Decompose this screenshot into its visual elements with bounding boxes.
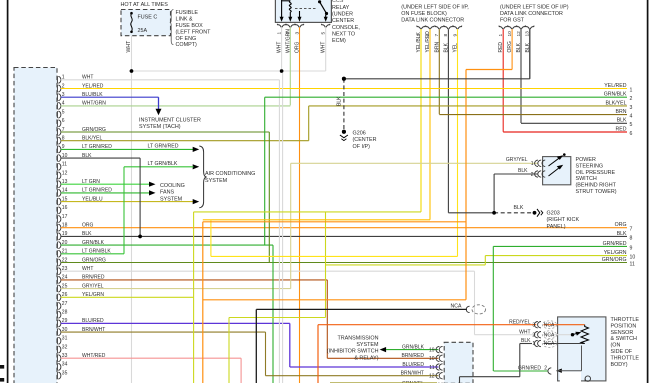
svg-text:SWITCH: SWITCH — [576, 176, 597, 182]
svg-text:ON FUSE BLOCK): ON FUSE BLOCK) — [401, 11, 447, 17]
svg-text:(INHIBITOR SWITCH: (INHIBITOR SWITCH — [327, 349, 379, 355]
svg-text:OF I/P): OF I/P) — [353, 144, 371, 150]
svg-text:2: 2 — [544, 366, 547, 372]
svg-text:HOT AT ALL TIMES: HOT AT ALL TIMES — [121, 2, 169, 8]
svg-text:25A: 25A — [138, 28, 148, 34]
svg-text:6: 6 — [630, 131, 633, 137]
svg-text:BLU/RED: BLU/RED — [402, 362, 424, 368]
svg-text:LT GRN/BLK: LT GRN/BLK — [148, 161, 178, 167]
svg-text:(UNDER: (UNDER — [332, 12, 353, 18]
svg-text:35: 35 — [62, 370, 68, 376]
svg-text:5: 5 — [62, 109, 65, 115]
svg-text:1: 1 — [531, 161, 534, 167]
svg-text:THROTTLE: THROTTLE — [611, 317, 640, 323]
svg-text:GRN/ORG: GRN/ORG — [602, 257, 627, 263]
svg-text:12: 12 — [429, 374, 435, 380]
svg-text:BLK: BLK — [518, 168, 528, 174]
svg-text:16: 16 — [62, 205, 68, 211]
svg-text:THROTTLE: THROTTLE — [611, 355, 640, 361]
svg-text:19: 19 — [429, 347, 435, 353]
svg-text:OF ENG: OF ENG — [176, 36, 197, 42]
svg-text:RELAY: RELAY — [332, 5, 350, 11]
svg-text:28: 28 — [62, 310, 68, 316]
svg-text:GRN/RED: GRN/RED — [518, 365, 541, 371]
svg-text:2: 2 — [630, 96, 633, 102]
svg-text:(ON: (ON — [611, 343, 621, 349]
svg-text:WHT: WHT — [519, 329, 530, 335]
svg-text:5: 5 — [630, 122, 633, 128]
svg-text:34: 34 — [62, 362, 68, 368]
svg-text:AIR CONDITIONING: AIR CONDITIONING — [205, 171, 255, 177]
svg-text:CONSOLE,: CONSOLE, — [332, 25, 360, 31]
svg-text:SENSOR: SENSOR — [611, 330, 634, 336]
svg-text:WHT: WHT — [126, 40, 132, 53]
svg-text:FOR GST: FOR GST — [500, 18, 525, 24]
svg-text:YEL/GRN: YEL/GRN — [604, 250, 627, 256]
svg-text:FUSE C: FUSE C — [138, 15, 158, 21]
svg-text:SIDE OF: SIDE OF — [611, 349, 633, 355]
svg-text:BRN/WHT: BRN/WHT — [401, 371, 424, 377]
svg-text:COMPT): COMPT) — [176, 42, 197, 48]
svg-text:POWER: POWER — [576, 157, 596, 163]
svg-text:DATA LINK CONNECTOR: DATA LINK CONNECTOR — [401, 18, 464, 24]
svg-text:11: 11 — [630, 261, 635, 267]
svg-text:BODY): BODY) — [611, 362, 628, 368]
svg-text:CCS: CCS — [332, 0, 344, 4]
svg-text:RED: RED — [616, 126, 627, 132]
svg-text:11: 11 — [429, 365, 434, 371]
svg-text:YEL/RED: YEL/RED — [604, 83, 626, 89]
svg-text:GRY/YEL: GRY/YEL — [506, 157, 528, 163]
svg-text:FUSE BOX: FUSE BOX — [176, 23, 204, 29]
svg-text:STEERING: STEERING — [576, 163, 604, 169]
svg-text:(UNDER LEFT SIDE OF I/P,: (UNDER LEFT SIDE OF I/P, — [401, 5, 469, 11]
svg-text:NCA: NCA — [544, 332, 555, 338]
svg-text:9: 9 — [630, 245, 633, 251]
svg-text:COOLING: COOLING — [160, 183, 185, 189]
svg-text:TRANSMISSION: TRANSMISSION — [337, 335, 378, 341]
svg-text:(LEFT FRONT: (LEFT FRONT — [176, 29, 212, 35]
svg-text:GRN/BLK: GRN/BLK — [604, 92, 627, 98]
svg-text:BRN: BRN — [616, 109, 627, 115]
svg-text:& SWITCH: & SWITCH — [611, 336, 637, 342]
svg-text:10: 10 — [630, 255, 636, 261]
svg-text:LINK &: LINK & — [176, 17, 193, 23]
svg-text:31: 31 — [62, 336, 68, 342]
svg-text:BLK: BLK — [617, 118, 627, 124]
svg-text:PANEL): PANEL) — [547, 224, 566, 230]
svg-text:DATA LINK CONNECTOR: DATA LINK CONNECTOR — [500, 11, 563, 17]
svg-text:POSITION: POSITION — [611, 323, 637, 329]
svg-text:BLK/YEL: BLK/YEL — [605, 100, 626, 106]
svg-text:STRUT TOWER): STRUT TOWER) — [576, 189, 617, 195]
svg-text:6: 6 — [62, 118, 65, 124]
svg-text:8: 8 — [630, 235, 633, 241]
svg-text:BLK: BLK — [514, 205, 524, 211]
svg-text:NEXT TO: NEXT TO — [332, 31, 355, 37]
svg-text:NCA: NCA — [544, 322, 555, 328]
svg-text:SYSTEM: SYSTEM — [160, 196, 183, 202]
svg-text:10: 10 — [429, 356, 435, 362]
svg-text:NCA: NCA — [451, 303, 462, 309]
svg-text:(CENTER: (CENTER — [353, 137, 377, 143]
svg-text:ORG: ORG — [615, 222, 627, 228]
svg-text:RED/YEL: RED/YEL — [509, 319, 531, 325]
svg-text:SYSTEM (TACH): SYSTEM (TACH) — [139, 124, 181, 130]
svg-text:OIL PRESSURE: OIL PRESSURE — [576, 170, 616, 176]
svg-text:17: 17 — [62, 214, 68, 220]
svg-text:& RELAY): & RELAY) — [354, 355, 378, 361]
svg-text:11: 11 — [62, 162, 67, 168]
svg-text:FUSIBLE: FUSIBLE — [176, 10, 199, 16]
svg-text:2: 2 — [531, 172, 534, 178]
svg-text:INSTRUMENT CLUSTER: INSTRUMENT CLUSTER — [139, 118, 201, 124]
svg-text:(RIGHT KICK: (RIGHT KICK — [547, 217, 580, 223]
svg-text:LT GRN/RED: LT GRN/RED — [148, 144, 179, 150]
svg-text:4: 4 — [630, 114, 633, 120]
svg-text:27: 27 — [62, 301, 68, 307]
svg-text:SYSTEM: SYSTEM — [356, 342, 379, 348]
svg-text:NCA: NCA — [544, 341, 555, 347]
svg-text:G206: G206 — [353, 131, 366, 137]
svg-text:CENTER: CENTER — [332, 18, 354, 24]
svg-text:3: 3 — [630, 105, 633, 111]
svg-text:BLK: BLK — [337, 96, 343, 106]
svg-text:(BEHIND RIGHT: (BEHIND RIGHT — [576, 183, 617, 189]
svg-text:(UNDER LEFT SIDE OF I/P): (UNDER LEFT SIDE OF I/P) — [500, 5, 569, 11]
svg-text:12: 12 — [62, 170, 68, 176]
svg-text:FANS: FANS — [160, 190, 174, 196]
svg-text:SYSTEM: SYSTEM — [205, 178, 228, 184]
svg-text:GRN/BLK: GRN/BLK — [402, 344, 425, 350]
svg-text:7: 7 — [630, 227, 633, 233]
svg-text:32: 32 — [62, 344, 68, 350]
svg-text:1: 1 — [630, 87, 633, 93]
svg-text:BLK: BLK — [617, 231, 627, 237]
svg-text:G203: G203 — [547, 211, 560, 217]
svg-text:ECM): ECM) — [332, 38, 346, 44]
svg-text:BRN/RED: BRN/RED — [401, 353, 424, 359]
